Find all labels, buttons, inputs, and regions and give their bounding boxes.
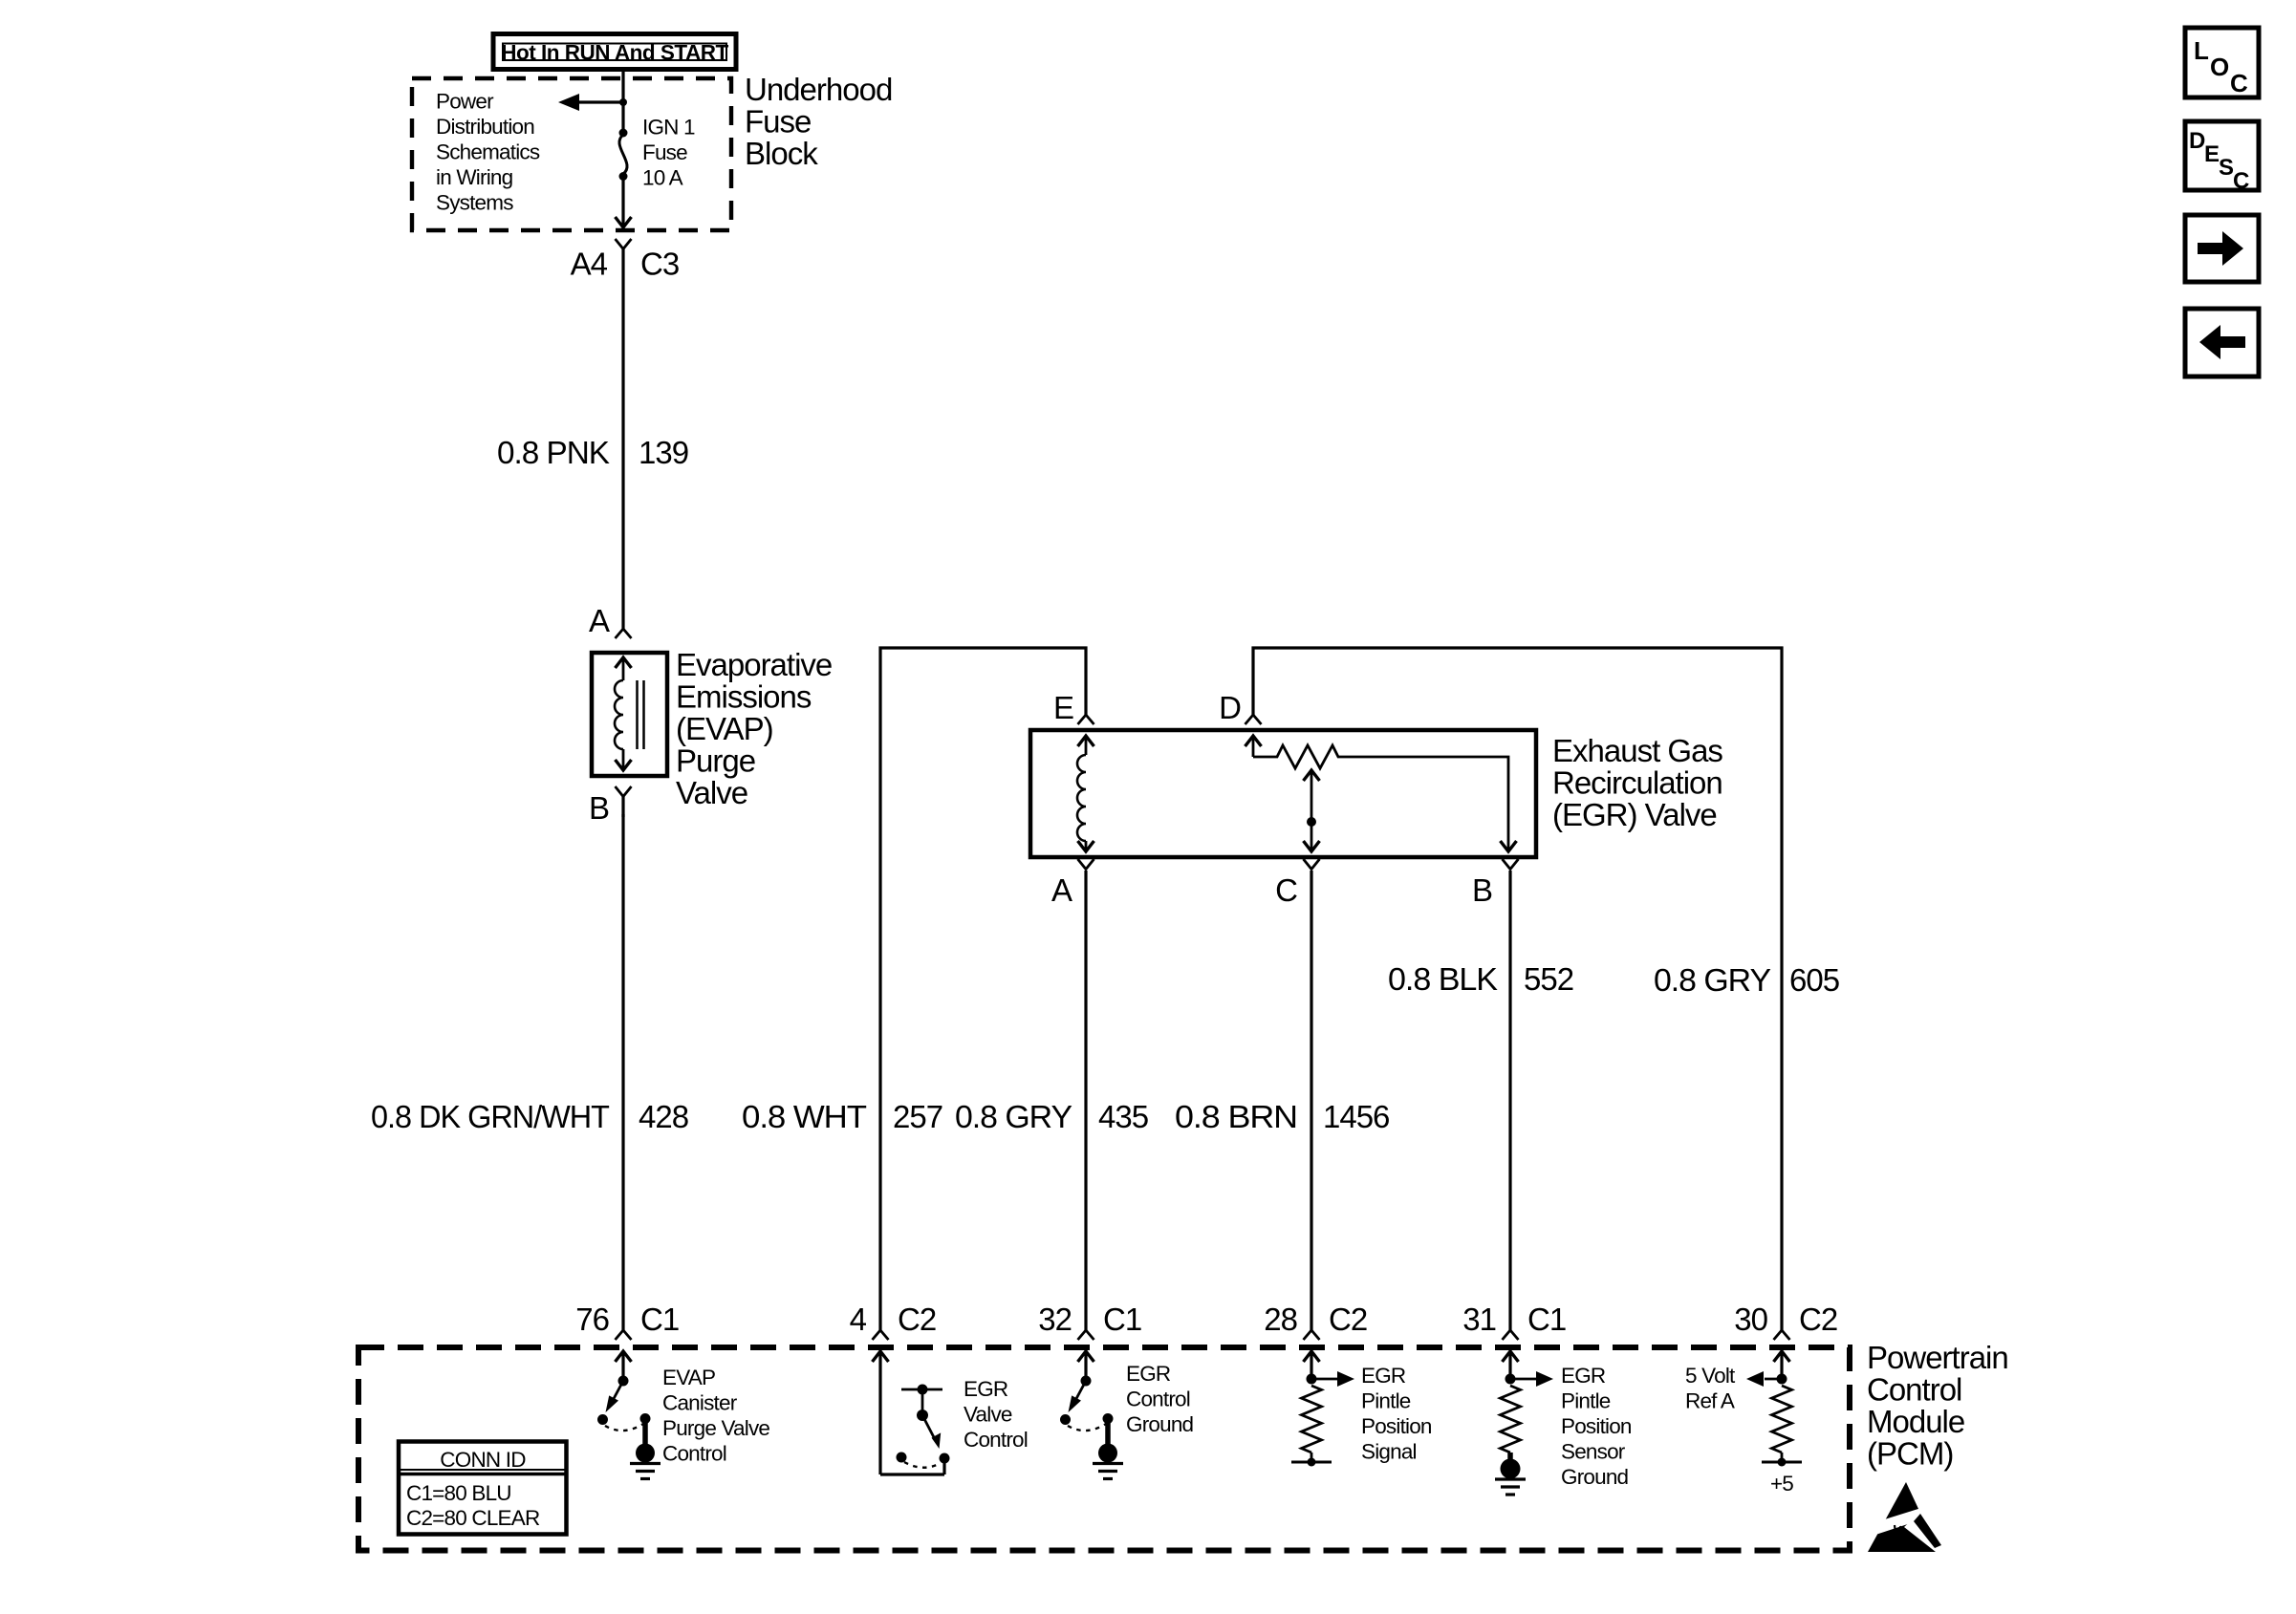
svg-text:EVAP: EVAP <box>662 1366 715 1389</box>
svg-text:C2: C2 <box>898 1302 936 1337</box>
svg-text:552: 552 <box>1524 961 1573 997</box>
Powertrain Control Module PCM (dashed box) <box>358 1347 1850 1551</box>
CONN ID table <box>399 1442 567 1535</box>
EGR valve control driver (pin 4) <box>873 1351 950 1474</box>
svg-text:Pintle: Pintle <box>1561 1389 1611 1413</box>
svg-text:EGR: EGR <box>964 1377 1008 1401</box>
svg-text:31: 31 <box>1462 1302 1496 1337</box>
value label 0.8 BRN <box>1175 1099 1297 1134</box>
svg-text:C2: C2 <box>1799 1302 1837 1337</box>
svg-text:Position: Position <box>1561 1414 1632 1438</box>
svg-text:EGR: EGR <box>1361 1364 1406 1388</box>
svg-text:76: 76 <box>575 1302 609 1337</box>
svg-text:B: B <box>1472 872 1492 908</box>
pin C3 <box>640 247 679 282</box>
svg-text:Ref A: Ref A <box>1685 1389 1735 1413</box>
pin C of EGR valve <box>1275 859 1319 908</box>
value label 0.8 GRY <box>955 1099 1072 1134</box>
svg-text:30: 30 <box>1734 1302 1767 1337</box>
fuse IGN 1 10 A <box>619 129 628 182</box>
pin D of EGR valve <box>1219 690 1261 725</box>
label: EGR Pintle Position Sensor Ground <box>1561 1364 1632 1489</box>
svg-text:Module: Module <box>1867 1404 1964 1439</box>
5 volt reference A output (pin 30) <box>1746 1351 1802 1467</box>
svg-text:C3: C3 <box>640 247 679 282</box>
value label 0.8 BLK <box>1388 961 1498 997</box>
svg-text:0.8 BLK: 0.8 BLK <box>1388 961 1498 997</box>
svg-text:B: B <box>589 790 609 826</box>
svg-text:+5: +5 <box>1770 1472 1793 1496</box>
EVAP canister purge valve control driver (pin 76) <box>597 1351 651 1431</box>
wire: 0.8 PNK 139 <box>621 267 624 629</box>
svg-text:5 Volt: 5 Volt <box>1685 1364 1736 1388</box>
PCM pin 28 connector C2 <box>1264 1302 1367 1340</box>
svg-text:EGR: EGR <box>1126 1362 1171 1386</box>
svg-text:E: E <box>2204 141 2220 167</box>
svg-text:Pintle: Pintle <box>1361 1389 1411 1413</box>
wire: 0.8 BRN 1456 (EGR C to PCM 28) <box>1310 871 1312 1330</box>
svg-text:139: 139 <box>639 435 688 470</box>
label: EGR Control Ground <box>1126 1362 1194 1436</box>
pin E of EGR valve <box>1053 690 1094 725</box>
circuit number 552 <box>1524 961 1573 997</box>
svg-text:257: 257 <box>893 1099 942 1134</box>
junction on hot feed <box>619 98 627 106</box>
svg-text:Powertrain: Powertrain <box>1867 1340 2008 1375</box>
ground (sealed at pin 652 driver) <box>630 1419 661 1479</box>
svg-text:Distribution: Distribution <box>436 115 534 139</box>
svg-text:C1: C1 <box>640 1302 679 1337</box>
svg-text:Position: Position <box>1361 1414 1432 1438</box>
pin B of EVAP valve <box>589 786 632 826</box>
svg-text:Control: Control <box>1867 1372 1961 1408</box>
next page arrow button <box>2185 215 2259 282</box>
power feed box "Hot In RUN And START" <box>493 34 736 70</box>
label: EGR Pintle Position Signal <box>1361 1364 1432 1464</box>
potentiometer wiper <box>1304 770 1320 851</box>
svg-text:10 A: 10 A <box>642 165 683 189</box>
svg-text:C1: C1 <box>1103 1302 1141 1337</box>
svg-text:C2: C2 <box>1329 1302 1367 1337</box>
svg-text:in Wiring: in Wiring <box>436 165 513 189</box>
label: Evaporative Emissions (EVAP) Purge Valve <box>676 647 832 810</box>
circuit number 605 <box>1789 962 1839 998</box>
PCM pin 32 connector C1 <box>1038 1302 1141 1340</box>
svg-text:605: 605 <box>1789 962 1839 998</box>
label: +5 supply <box>1770 1472 1793 1496</box>
svg-text:IGN 1: IGN 1 <box>642 115 695 139</box>
arrow to power distribution (left) <box>558 94 623 111</box>
label: EVAP Canister Purge Valve Control <box>662 1366 769 1466</box>
EGR control ground driver (pin 32) <box>1060 1351 1114 1431</box>
svg-text:D: D <box>2189 128 2205 154</box>
svg-text:CONN ID: CONN ID <box>440 1448 526 1472</box>
svg-text:32: 32 <box>1038 1302 1072 1337</box>
svg-text:S: S <box>2219 155 2234 181</box>
PCM pin 31 connector C1 <box>1462 1302 1566 1340</box>
wire: 0.8 GRY 435 (EGR A to PCM 32) <box>1084 871 1087 1330</box>
svg-text:C: C <box>2233 168 2249 194</box>
svg-text:Sensor: Sensor <box>1561 1440 1626 1464</box>
svg-text:C2=80 CLEAR: C2=80 CLEAR <box>406 1506 540 1530</box>
svg-text:(EGR) Valve: (EGR) Valve <box>1552 797 1717 832</box>
svg-text:C: C <box>1275 872 1297 908</box>
pin B of EGR valve <box>1472 859 1519 908</box>
circuit number 1456 <box>1323 1099 1389 1134</box>
svg-text:Valve: Valve <box>964 1403 1012 1427</box>
svg-text:0.8 WHT: 0.8 WHT <box>742 1099 867 1134</box>
ground (EGR pintle position sensor ground) <box>1495 1453 1526 1495</box>
circuit number 435 <box>1098 1099 1148 1134</box>
svg-text:Purge Valve: Purge Valve <box>662 1416 769 1440</box>
EGR valve (Exhaust Gas Recirculation) <box>1030 730 1536 857</box>
svg-text:C1: C1 <box>1527 1302 1566 1337</box>
ground (sealed at pin 1136 driver) <box>1093 1419 1123 1479</box>
value label 0.8 DK GRN/WHT <box>371 1099 610 1134</box>
svg-text:0.8 GRY: 0.8 GRY <box>955 1099 1072 1134</box>
pin A of EGR valve <box>1051 859 1094 908</box>
svg-text:0.8 PNK: 0.8 PNK <box>497 435 610 470</box>
svg-text:A: A <box>1051 872 1072 908</box>
svg-text:0.8 DK GRN/WHT: 0.8 DK GRN/WHT <box>371 1099 610 1134</box>
arrow out of fuse block <box>616 217 632 227</box>
svg-text:Block: Block <box>745 136 818 171</box>
svg-text:428: 428 <box>639 1099 688 1134</box>
svg-text:Fuse: Fuse <box>745 103 811 139</box>
svg-text:L: L <box>2194 36 2209 65</box>
value label 0.8 GRY <box>1654 962 1771 998</box>
svg-text:Control: Control <box>1126 1388 1190 1411</box>
EGR pintle position signal input (pin 28) <box>1291 1351 1354 1467</box>
svg-text:Power: Power <box>436 89 494 113</box>
wire: 0.8 DK GRN/WHT 428 <box>621 814 624 1330</box>
svg-text:(EVAP): (EVAP) <box>676 711 773 746</box>
wire: 0.8 WHT 257 (pin E to PCM pin 4) <box>880 648 1086 1330</box>
svg-text:0.8 GRY: 0.8 GRY <box>1654 962 1771 998</box>
previous page arrow button <box>2185 309 2259 377</box>
svg-text:Underhood: Underhood <box>745 72 892 107</box>
svg-text:0.8 BRN: 0.8 BRN <box>1175 1099 1297 1134</box>
svg-text:Ground: Ground <box>1126 1412 1194 1436</box>
svg-text:Systems: Systems <box>436 190 513 214</box>
svg-text:E: E <box>1053 690 1073 725</box>
circuit number 257 <box>893 1099 942 1134</box>
wire: 0.8 BLK 552 (EGR B to PCM 31) <box>1508 871 1511 1330</box>
circuit number 139 <box>639 435 688 470</box>
svg-text:Fuse: Fuse <box>642 140 687 164</box>
PCM pin 30 connector C2 <box>1734 1302 1837 1340</box>
ESD sensitive device symbol <box>1860 1482 1948 1556</box>
wire: fuse to connector C3 <box>621 177 624 228</box>
value label 0.8 WHT <box>742 1099 867 1134</box>
label: Exhaust Gas Recirculation (EGR) Valve <box>1552 733 1722 832</box>
svg-text:Canister: Canister <box>662 1391 738 1415</box>
svg-text:Exhaust Gas: Exhaust Gas <box>1552 733 1722 768</box>
svg-text:EGR: EGR <box>1561 1364 1606 1388</box>
PCM pin 76 connector C1 <box>575 1302 679 1340</box>
value label 0.8 PNK <box>497 435 610 470</box>
label: 5 Volt Ref A <box>1685 1364 1736 1413</box>
note: power distribution schematics in wiring systems <box>436 89 540 214</box>
svg-text:Evaporative: Evaporative <box>676 647 832 682</box>
connector A4/C3 <box>616 239 632 267</box>
label: Underhood Fuse Block <box>745 72 892 171</box>
svg-text:A4: A4 <box>571 247 608 282</box>
svg-text:Control: Control <box>964 1428 1028 1452</box>
svg-text:Ground: Ground <box>1561 1465 1629 1489</box>
wire: 0.8 GRY 605 (pin D to PCM pin 30) <box>1253 648 1782 1330</box>
svg-text:Schematics: Schematics <box>436 140 540 163</box>
svg-text:Hot In RUN And START: Hot In RUN And START <box>501 41 728 65</box>
svg-text:A: A <box>589 603 610 638</box>
DESC button <box>2185 121 2259 194</box>
underhood fuse block (dashed box) <box>412 78 731 230</box>
svg-text:C: C <box>2230 69 2248 97</box>
svg-text:Valve: Valve <box>676 775 747 810</box>
svg-text:Recirculation: Recirculation <box>1552 765 1722 801</box>
svg-text:Control: Control <box>662 1442 726 1466</box>
label: IGN 1 Fuse 10 A <box>642 115 695 189</box>
label: Powertrain Control Module (PCM) <box>1867 1340 2008 1472</box>
svg-text:Signal: Signal <box>1361 1440 1417 1464</box>
svg-text:C1=80 BLU: C1=80 BLU <box>406 1481 511 1505</box>
svg-text:28: 28 <box>1264 1302 1297 1337</box>
svg-text:(PCM): (PCM) <box>1867 1436 1953 1472</box>
EGR pintle position potentiometer <box>1245 736 1517 851</box>
EGR solenoid coil <box>1077 736 1094 851</box>
svg-text:Emissions: Emissions <box>676 679 812 715</box>
pin A4 <box>571 247 608 282</box>
svg-text:1456: 1456 <box>1323 1099 1389 1134</box>
svg-text:O: O <box>2210 53 2229 81</box>
svg-text:435: 435 <box>1098 1099 1148 1134</box>
EVAP purge valve solenoid <box>592 653 667 776</box>
circuit number 428 <box>639 1099 688 1134</box>
PCM pin 4 connector C2 <box>850 1302 937 1340</box>
EGR pintle position sensor ground (pin 31) <box>1501 1351 1554 1453</box>
svg-text:4: 4 <box>850 1302 867 1337</box>
pin A of EVAP valve <box>589 603 632 638</box>
svg-text:D: D <box>1219 690 1241 725</box>
svg-text:Purge: Purge <box>676 743 755 779</box>
wire: hot feed into fuse block <box>621 70 624 134</box>
label: EGR Valve Control <box>964 1377 1028 1452</box>
LOC button <box>2185 28 2259 97</box>
